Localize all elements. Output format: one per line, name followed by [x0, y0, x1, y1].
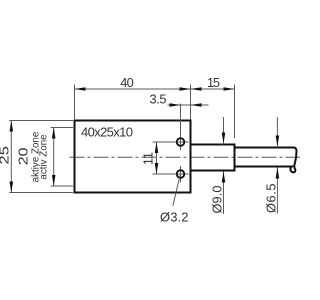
extension line body left top	[74, 85, 76, 120]
lower hole circle	[177, 170, 185, 178]
arrowhead 25 top	[10, 121, 14, 132]
diameter 9.0 upper arrow line	[223, 117, 225, 145]
arrowhead d65 up	[276, 168, 280, 179]
arrowhead 40 right	[180, 87, 191, 91]
extension line 11 bottom	[153, 173, 173, 175]
extension line cylinder end top	[234, 85, 236, 139]
extension line body bottom left	[9, 192, 73, 194]
connector cylinder outline	[192, 145, 235, 171]
arrowhead 20 bottom	[52, 175, 56, 186]
arrowhead 15 left	[191, 87, 202, 91]
extension line 11 top	[153, 141, 173, 143]
arrowhead 11 bottom	[155, 163, 159, 174]
diameter 9.0 lower arrow line	[223, 172, 225, 215]
dimension line 11	[156, 142, 158, 174]
diameter 6.5 upper arrow line	[276, 117, 278, 148]
dimension line 3.5 left tail	[168, 104, 181, 106]
svg-text:40x25x10: 40x25x10	[81, 125, 133, 140]
arrowhead 20 top	[52, 128, 56, 139]
arrowhead 15 right	[224, 87, 235, 91]
extension line body right top	[190, 85, 192, 120]
extension line body top left	[9, 120, 73, 122]
dimension line 40	[75, 88, 191, 90]
cable outline with break	[235, 148, 297, 173]
diameter 6.5 lower arrow line	[276, 168, 278, 214]
svg-text:Ø9.0: Ø9.0	[209, 186, 224, 214]
arrowhead 3.5 left (points right)	[170, 103, 181, 107]
arrowhead 40 left	[75, 87, 86, 91]
dimension line 3.5 middle	[181, 104, 191, 106]
svg-text:25: 25	[0, 146, 12, 164]
svg-text:15: 15	[207, 75, 220, 90]
upper hole crosshair horizontal	[153, 141, 189, 143]
dimension line 20	[53, 128, 55, 187]
lower hole crosshair horizontal	[153, 173, 189, 175]
svg-text:40: 40	[120, 75, 134, 90]
centerline horizontal axis	[70, 156, 301, 158]
arrowhead 3.5 right (points left)	[191, 103, 202, 107]
upper hole circle	[177, 138, 185, 146]
extension line aktive zone bottom	[51, 185, 73, 187]
dimension line 15	[191, 88, 235, 90]
svg-text:3.5: 3.5	[150, 92, 167, 107]
svg-text:activ Zone: activ Zone	[39, 134, 50, 180]
sensor body outline 40x25	[75, 121, 191, 193]
arrowhead 11 top	[155, 142, 159, 153]
svg-text:11: 11	[140, 152, 155, 165]
arrowhead d9 up	[222, 172, 226, 183]
arrowhead 25 bottom	[10, 182, 14, 193]
svg-text:20: 20	[17, 148, 31, 166]
upper hole crosshair vertical / 3.5 extension line	[180, 104, 182, 151]
dimension line 25	[10, 121, 12, 193]
extension line aktive zone top	[51, 127, 73, 129]
svg-text:Ø3.2: Ø3.2	[160, 210, 189, 225]
arrowhead d65 down	[276, 136, 280, 147]
svg-text:Ø6.5: Ø6.5	[264, 184, 279, 214]
dimension line 3.5 right tail	[191, 104, 209, 106]
leader line to Ø3.2	[173, 175, 180, 206]
arrowhead d9 down	[222, 133, 226, 144]
lower hole crosshair vertical	[180, 166, 182, 183]
